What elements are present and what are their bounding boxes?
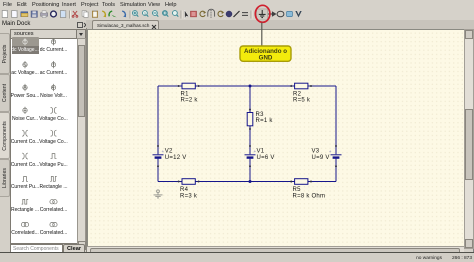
wire bottom-left segment (158, 181, 182, 183)
wire bottom-right segment (308, 181, 337, 183)
schematic horizontal scrollbar (87, 246, 464, 253)
dock title bar (0, 20, 86, 29)
wire top-right segment (308, 85, 337, 87)
wire left vertical lower (157, 159, 159, 182)
wire top-middle segment (195, 85, 294, 87)
annotation red circle on toolbar GND button (255, 5, 270, 22)
svg-text:V2: V2 (165, 149, 173, 155)
junction node bottom-middle (249, 180, 252, 183)
svg-text:U=9 V: U=9 V (312, 155, 330, 161)
schematic area (87, 29, 465, 248)
left vertical tab strip (0, 29, 10, 254)
dock panel (10, 28, 87, 254)
wire middle vertical lower (249, 159, 251, 182)
voltage source V2 (153, 150, 164, 157)
svg-text:R4: R4 (180, 187, 189, 193)
voltage source V1 (245, 150, 256, 157)
schematic vertical scrollbar (464, 29, 474, 249)
svg-text:R=5 k: R=5 k (293, 98, 311, 104)
list scrollbar (77, 38, 86, 244)
toolbar (0, 9, 474, 22)
tooltip "Adicionando o GND" (240, 46, 291, 61)
wire middle vertical mid (249, 126, 251, 155)
wire left vertical upper (157, 86, 159, 154)
wire top-left segment (158, 85, 182, 87)
component list (10, 38, 79, 244)
ground (ghost symbol being placed) (154, 190, 163, 198)
sources combo (10, 29, 86, 39)
svg-text:V1: V1 (257, 149, 265, 155)
status bar (0, 252, 474, 262)
menu bar (0, 0, 474, 10)
svg-text:V3: V3 (312, 149, 320, 155)
resistor R5 (295, 179, 308, 185)
resistor R1 (182, 83, 195, 89)
svg-text:R=8 k Ohm: R=8 k Ohm (293, 194, 326, 200)
search input (10, 244, 63, 254)
svg-text:R=1 k: R=1 k (256, 118, 274, 124)
junction node top-middle (249, 85, 252, 88)
annotation connector line (261, 23, 263, 47)
wire right vertical lower (335, 159, 337, 182)
component terminal dots (157, 85, 337, 183)
voltage source V3 (329, 150, 341, 157)
resistor R2 (295, 83, 308, 89)
wire right vertical upper (335, 86, 337, 154)
labels (165, 92, 330, 200)
tab bar (86, 20, 474, 30)
resistor R4 (182, 179, 195, 185)
wire bottom-middle segment (195, 181, 294, 183)
svg-text:R=2 k: R=2 k (181, 98, 199, 104)
wire middle vertical upper (249, 86, 251, 113)
svg-text:U=12 V: U=12 V (165, 155, 187, 161)
resistor R3 (247, 113, 253, 126)
svg-text:R=3 k: R=3 k (180, 194, 198, 200)
svg-text:U=6 V: U=6 V (257, 155, 275, 161)
svg-text:GND: GND (259, 55, 273, 62)
clear button (63, 244, 85, 255)
svg-text:R5: R5 (293, 187, 302, 193)
